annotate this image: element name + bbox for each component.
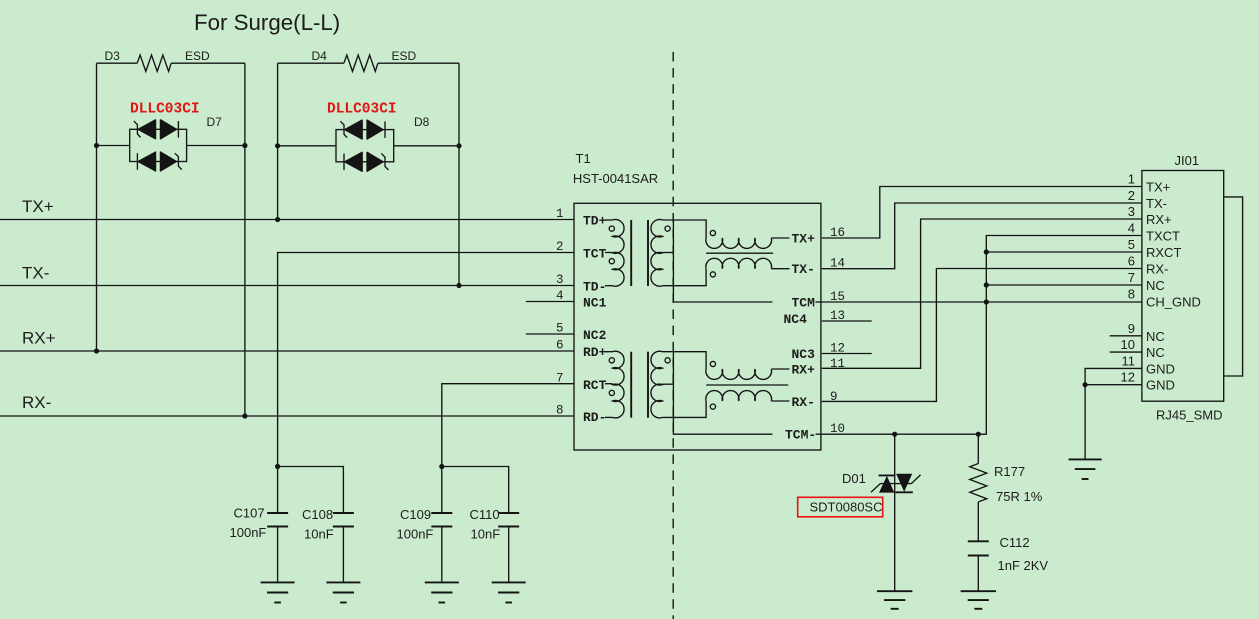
svg-text:RX+: RX+ bbox=[22, 329, 56, 348]
wire RX- line bbox=[0, 415, 574, 417]
wire T1 pin16 to JI01 pin1 bbox=[822, 187, 1142, 239]
svg-text:TXCT: TXCT bbox=[1146, 229, 1180, 244]
capacitor C112 1nF 2KV bbox=[968, 535, 1049, 591]
svg-text:RX-: RX- bbox=[1146, 262, 1168, 277]
wire RCT to C109/C110 bbox=[442, 384, 574, 513]
T1 NC2 stub pin 5 bbox=[526, 333, 574, 335]
wire JI01 pin5 RXCT bbox=[986, 251, 1142, 253]
wire RX+ line bbox=[0, 350, 574, 352]
svg-text:C107: C107 bbox=[234, 506, 265, 521]
svg-text:6: 6 bbox=[1128, 254, 1135, 269]
ground JI01 bbox=[1069, 459, 1102, 479]
resistor D3 (ESD) bbox=[97, 49, 245, 71]
svg-text:T1: T1 bbox=[576, 151, 591, 166]
connector JI01 RJ45_SMD bbox=[1142, 153, 1243, 423]
svg-text:TX-: TX- bbox=[1146, 196, 1167, 211]
svg-text:RX+: RX+ bbox=[792, 363, 816, 378]
ground C110 bbox=[492, 582, 526, 602]
svg-text:8: 8 bbox=[556, 404, 564, 418]
svg-text:CH_GND: CH_GND bbox=[1146, 295, 1201, 310]
JI01 pin 9 stub bbox=[1110, 335, 1142, 337]
svg-text:7: 7 bbox=[556, 372, 564, 386]
svg-text:75R 1%: 75R 1% bbox=[996, 489, 1043, 504]
wire JI01 pin4 TXCT chain bbox=[978, 236, 1142, 435]
T1 NC1 stub pin 4 bbox=[526, 301, 574, 303]
svg-text:10nF: 10nF bbox=[304, 527, 334, 542]
T1 core (top) bbox=[630, 220, 632, 286]
svg-text:ESD: ESD bbox=[185, 49, 210, 63]
svg-text:4: 4 bbox=[1128, 221, 1135, 236]
wire T1 pin9 to JI01 pin6 bbox=[822, 269, 1142, 402]
T1 left pin names bbox=[583, 214, 607, 426]
wire JI01 pin11/12 to ground bbox=[1085, 368, 1142, 459]
svg-text:NC: NC bbox=[1146, 278, 1165, 293]
svg-text:R177: R177 bbox=[994, 464, 1025, 479]
svg-text:100nF: 100nF bbox=[397, 527, 434, 542]
junction TCM- R177 bbox=[976, 432, 981, 437]
node RX- / D3 junction bbox=[242, 413, 247, 418]
JI01 pin numbers bbox=[1121, 172, 1135, 385]
T1 primary winding RD (bottom) bbox=[605, 351, 624, 418]
svg-text:SDT0080SC: SDT0080SC bbox=[810, 500, 883, 515]
ground C108 bbox=[326, 582, 360, 602]
wire T1 pin14 to JI01 pin2 bbox=[822, 203, 1142, 269]
D01 part name red box SDT0080SC bbox=[798, 497, 883, 517]
svg-text:RD-: RD- bbox=[583, 410, 606, 425]
wire JI01 pin7 NC bbox=[986, 284, 1142, 286]
svg-text:7: 7 bbox=[1128, 270, 1135, 285]
ground C112 bbox=[961, 591, 996, 609]
wire D4 left vertical bbox=[277, 63, 279, 219]
wire D3 left vertical bbox=[96, 63, 98, 351]
svg-text:TX+: TX+ bbox=[1146, 180, 1170, 195]
choke separator (bottom) bbox=[706, 384, 788, 386]
wire secondary bottom to choke (bottom) bbox=[663, 401, 707, 417]
svg-text:D3: D3 bbox=[105, 49, 121, 63]
svg-text:TCM-: TCM- bbox=[785, 428, 816, 443]
svg-text:12: 12 bbox=[1121, 370, 1135, 385]
node TX- / D4 junction bbox=[456, 283, 461, 288]
diode array D7 DLLC03CI bbox=[94, 102, 248, 171]
transformer T1 HST-0041SAR bbox=[573, 151, 821, 450]
wire secondary top to choke (top) bbox=[663, 220, 707, 238]
svg-text:NC: NC bbox=[1146, 329, 1165, 344]
resistor R177 75R 1% bbox=[970, 434, 1043, 541]
svg-text:RX-: RX- bbox=[792, 395, 815, 410]
svg-text:For Surge(L-L): For Surge(L-L) bbox=[194, 10, 340, 35]
wire T1 pin15 to JI01 pin8 (CH_GND) bbox=[822, 301, 1142, 303]
svg-text:9: 9 bbox=[1128, 321, 1135, 336]
svg-text:TCM: TCM bbox=[792, 296, 816, 311]
svg-text:5: 5 bbox=[1128, 237, 1135, 252]
choke RX- winding bbox=[706, 391, 790, 410]
T1 right pin names bbox=[784, 232, 817, 443]
choke TX+ winding bbox=[706, 230, 790, 248]
wire T1 pin13 stub NC4 bbox=[822, 320, 872, 322]
TVS D01 SDT0080SC bbox=[842, 434, 921, 591]
svg-text:D4: D4 bbox=[312, 49, 328, 63]
svg-text:NC2: NC2 bbox=[583, 328, 607, 343]
junction pin7 bbox=[984, 282, 989, 287]
TCM- stub to pin 10 bbox=[816, 433, 822, 435]
JI01 pin names bbox=[1146, 180, 1201, 393]
svg-text:100nF: 100nF bbox=[230, 525, 267, 540]
svg-text:NC: NC bbox=[1146, 345, 1165, 360]
wire TX- line bbox=[0, 285, 574, 287]
choke RX+ winding bbox=[706, 361, 790, 379]
capacitor C110 10nF bbox=[470, 507, 520, 582]
svg-text:10: 10 bbox=[1121, 337, 1135, 352]
wire T1 pin10 TCM- line bbox=[822, 433, 979, 435]
svg-text:TX+: TX+ bbox=[792, 232, 816, 247]
choke TX- winding bbox=[706, 258, 790, 277]
svg-text:6: 6 bbox=[556, 339, 564, 353]
svg-text:TX-: TX- bbox=[792, 262, 815, 277]
JI01 pin 10 stub bbox=[1110, 351, 1142, 353]
svg-text:3: 3 bbox=[556, 273, 564, 287]
wire T1 pin12 stub NC3 bbox=[822, 353, 872, 355]
svg-text:RX+: RX+ bbox=[1146, 212, 1172, 227]
wire D3 right vertical bbox=[244, 63, 246, 416]
svg-text:C109: C109 bbox=[400, 507, 431, 522]
wire center tap TCM bbox=[673, 220, 772, 302]
wire T1 pin11 to JI01 pin3 bbox=[822, 219, 1142, 368]
node TX+ / D4 junction bbox=[275, 217, 280, 222]
svg-text:NC1: NC1 bbox=[583, 296, 607, 311]
svg-text:3: 3 bbox=[1128, 204, 1135, 219]
svg-text:C110: C110 bbox=[470, 507, 500, 522]
capacitor C109 100nF bbox=[397, 507, 453, 582]
T1 secondary winding (bottom) bbox=[651, 351, 673, 418]
capacitor C108 10nF bbox=[302, 507, 354, 582]
svg-text:DLLC03CI: DLLC03CI bbox=[327, 102, 397, 118]
TCM stub to pin 15 bbox=[816, 301, 822, 303]
choke separator (top) bbox=[706, 252, 773, 254]
svg-text:NC3: NC3 bbox=[792, 347, 816, 362]
ground C107 bbox=[261, 582, 295, 602]
svg-text:10nF: 10nF bbox=[471, 527, 501, 542]
wire D4 right vertical bbox=[458, 63, 460, 285]
wire center tap TCM- bbox=[673, 352, 772, 435]
svg-text:ESD: ESD bbox=[392, 49, 417, 63]
svg-text:TCT: TCT bbox=[583, 247, 607, 262]
T1 primary winding TD (top) bbox=[605, 220, 624, 287]
svg-text:1nF 2KV: 1nF 2KV bbox=[998, 558, 1049, 573]
svg-text:TX-: TX- bbox=[22, 264, 49, 283]
svg-text:DLLC03CI: DLLC03CI bbox=[130, 102, 200, 118]
dashed isolation line bbox=[672, 52, 674, 619]
svg-text:TD+: TD+ bbox=[583, 214, 607, 229]
svg-text:TX+: TX+ bbox=[22, 197, 54, 216]
svg-text:GND: GND bbox=[1146, 361, 1175, 376]
svg-text:C108: C108 bbox=[302, 507, 333, 522]
svg-text:2: 2 bbox=[556, 240, 564, 254]
svg-text:C112: C112 bbox=[1000, 535, 1030, 550]
svg-text:RX-: RX- bbox=[22, 393, 51, 412]
junction pin8 bbox=[984, 299, 989, 304]
svg-text:8: 8 bbox=[1128, 287, 1135, 302]
resistor D4 (ESD) bbox=[278, 49, 459, 71]
svg-text:1: 1 bbox=[556, 207, 564, 221]
ground D01 bbox=[877, 591, 912, 609]
svg-text:11: 11 bbox=[1122, 353, 1136, 368]
svg-text:1: 1 bbox=[1128, 172, 1135, 187]
svg-text:JI01: JI01 bbox=[1175, 153, 1200, 168]
junction TCM- D01 bbox=[892, 432, 897, 437]
svg-text:RXCT: RXCT bbox=[1146, 245, 1181, 260]
svg-text:RD+: RD+ bbox=[583, 345, 607, 360]
junction pin5 bbox=[984, 249, 989, 254]
wire TCT to C107/C108 bbox=[278, 253, 574, 514]
wire secondary bottom to choke (top) bbox=[663, 269, 707, 286]
T1 core (bottom) bbox=[630, 352, 632, 418]
svg-text:2: 2 bbox=[1128, 188, 1135, 203]
svg-text:RCT: RCT bbox=[583, 378, 607, 393]
svg-text:GND: GND bbox=[1146, 378, 1175, 393]
svg-text:NC4: NC4 bbox=[784, 312, 808, 327]
wire TX+ line bbox=[0, 219, 574, 221]
svg-text:D01: D01 bbox=[842, 471, 866, 486]
node RX+ / D3 junction bbox=[94, 348, 99, 353]
svg-text:D7: D7 bbox=[207, 115, 223, 129]
svg-text:TD-: TD- bbox=[583, 280, 606, 295]
diode array D8 DLLC03CI bbox=[275, 102, 462, 172]
T1 secondary winding (top) bbox=[651, 220, 673, 287]
svg-text:D8: D8 bbox=[414, 115, 430, 129]
ground C109 bbox=[425, 582, 459, 602]
wire secondary top to choke (bottom) bbox=[663, 352, 707, 369]
svg-text:HST-0041SAR: HST-0041SAR bbox=[573, 171, 658, 186]
svg-text:RJ45_SMD: RJ45_SMD bbox=[1156, 408, 1222, 423]
capacitor C107 100nF bbox=[230, 506, 289, 583]
